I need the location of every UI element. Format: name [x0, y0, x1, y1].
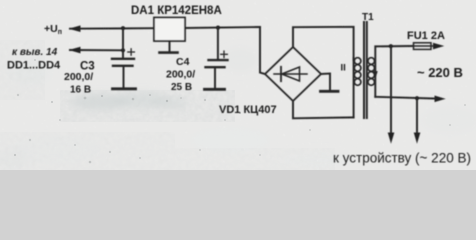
- ground bar under C4: [205, 88, 225, 91]
- wire: drop from lower mains line to device: [416, 98, 418, 136]
- wire: +Up top rail from output arrow to DA1 input: [70, 27, 154, 30]
- wire: top rail from DA1 output to corner above bridge left vertex: [185, 27, 260, 28]
- svg-text:C4: C4: [176, 56, 190, 68]
- node: junction dot C3 on top rail: [121, 26, 125, 30]
- C3 plus polarity sign: [128, 49, 135, 55]
- scan specks: [14, 59, 466, 163]
- page smudges: [0, 48, 476, 169]
- speckle zones: [0, 132, 175, 170]
- svg-text:к устройству (~ 220 В): к устройству (~ 220 В): [333, 151, 471, 166]
- ground bar at bridge right vertex: [321, 90, 339, 93]
- wire: primary bottom mains line: [375, 97, 437, 99]
- wire: bridge right vertex to common: [321, 74, 330, 91]
- bridge rectifier VD1 diamond: [265, 47, 321, 101]
- node: mains arrow on fused line: [434, 43, 443, 48]
- svg-text:200,0/: 200,0/: [166, 69, 195, 81]
- node: +Up output arrow: [71, 26, 81, 31]
- small arrow mark on primary spine: [373, 72, 377, 78]
- svg-text:25 В: 25 В: [171, 82, 192, 93]
- C4 plus polarity sign: [221, 51, 228, 57]
- node: device arrow left: [388, 133, 393, 142]
- wire: bridge bottom vertex down and right to transformer secondary bottom: [293, 101, 354, 118]
- fuse FU1: [412, 43, 436, 50]
- diode symbol inside VD1: [274, 67, 307, 81]
- node: device arrow right: [414, 133, 419, 142]
- voltage regulator DA1 box: [154, 18, 185, 42]
- transformer T1 primary winding: [368, 58, 375, 86]
- svg-text:FU1 2A: FU1 2A: [407, 30, 445, 42]
- capacitor C3: [112, 28, 134, 87]
- svg-text:T1: T1: [362, 12, 374, 23]
- svg-text:200,0/: 200,0/: [64, 71, 93, 83]
- transformer T1 core: [364, 22, 367, 118]
- node: junction dot pin14 tap on C3 wire: [121, 48, 125, 52]
- wire: vertical drop from top rail corner to bridge left vertex: [260, 27, 265, 74]
- svg-text:к выв. 14: к выв. 14: [12, 47, 58, 58]
- node: pin14 tap arrow: [71, 47, 81, 52]
- svg-text:DA1 КР142ЕН8А: DA1 КР142ЕН8А: [131, 5, 222, 17]
- wire: DA1 output to rail (left) is part of rail; DA1 ground pin: [169, 41, 171, 52]
- wire: bridge top vertex up and right to transformer secondary top: [293, 27, 354, 60]
- paper background: [0, 0, 476, 170]
- node: junction dot fused line: [389, 44, 393, 48]
- wire: drop from fused line to device: [390, 46, 392, 136]
- svg-text:II: II: [341, 63, 346, 74]
- svg-text:DD1...DD4: DD1...DD4: [7, 60, 61, 72]
- transformer T1 secondary winding II: [354, 58, 361, 86]
- capacitor C4: [206, 28, 228, 88]
- svg-text:VD1 КЦ407: VD1 КЦ407: [219, 104, 277, 116]
- wire: tap to pin14 DD1..DD4 with arrow: [70, 49, 123, 51]
- node: junction dot C4 on top rail: [216, 26, 220, 30]
- ground bar under C3: [113, 87, 136, 90]
- node: junction dot lower mains line: [415, 96, 419, 100]
- wire: transformer secondary spine: [353, 58, 355, 117]
- wire: primary spine and top to fuse line: [375, 46, 412, 97]
- node: mains arrow on lower line: [435, 96, 444, 101]
- svg-text:16 В: 16 В: [70, 85, 91, 96]
- svg-text:~ 220 В: ~ 220 В: [417, 65, 463, 80]
- ground bar under DA1: [160, 51, 178, 54]
